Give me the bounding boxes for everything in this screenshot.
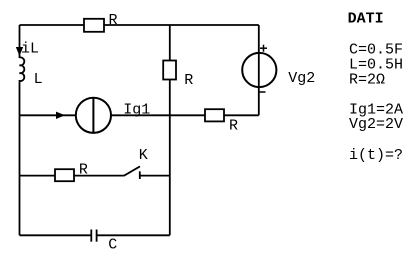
svg-text:Vg2: Vg2 <box>288 70 315 87</box>
capacitor C <box>91 230 117 254</box>
svg-text:C: C <box>108 237 117 254</box>
svg-text:Ig1: Ig1 <box>123 102 150 119</box>
svg-text:i(t)=?: i(t)=? <box>349 147 403 164</box>
resistor R on y=115 wire <box>205 109 238 135</box>
wire top horizontal <box>20 24 259 26</box>
svg-text:R: R <box>79 162 88 179</box>
svg-text:DATI: DATI <box>348 10 384 27</box>
arrow on wire to Ig1 <box>56 112 65 119</box>
svg-text:K: K <box>139 147 148 164</box>
data panel DATI <box>348 10 403 164</box>
wire middle vertical x=170 lower <box>169 80 171 236</box>
voltage source Vg2 <box>242 45 315 92</box>
switch K <box>124 147 148 179</box>
wire left vertical upper <box>19 25 21 58</box>
svg-text:R: R <box>109 12 118 29</box>
svg-text:L: L <box>34 71 43 88</box>
wire middle vertical x=170 upper <box>169 25 171 61</box>
wire left vertical lower <box>19 80 21 235</box>
inductor L <box>20 57 43 88</box>
current source Ig1 <box>76 98 150 133</box>
svg-text:iL: iL <box>21 41 39 58</box>
wire middle horizontal y=115 <box>20 114 259 116</box>
svg-text:R: R <box>184 72 193 89</box>
wire right vertical Vg2 branch <box>258 25 260 115</box>
wire switch row right <box>140 175 170 177</box>
svg-text:R: R <box>229 118 238 135</box>
current arrow iL <box>16 41 39 58</box>
resistor R top <box>84 12 118 32</box>
svg-text:Vg2=2V: Vg2=2V <box>349 116 403 133</box>
resistor R switch row <box>55 162 88 182</box>
wire bottom horizontal left <box>20 234 92 236</box>
wire switch row left <box>20 175 124 177</box>
svg-text:R=2Ω: R=2Ω <box>349 71 385 88</box>
wire bottom horizontal right <box>97 234 170 236</box>
resistor R middle vertical <box>163 61 193 90</box>
